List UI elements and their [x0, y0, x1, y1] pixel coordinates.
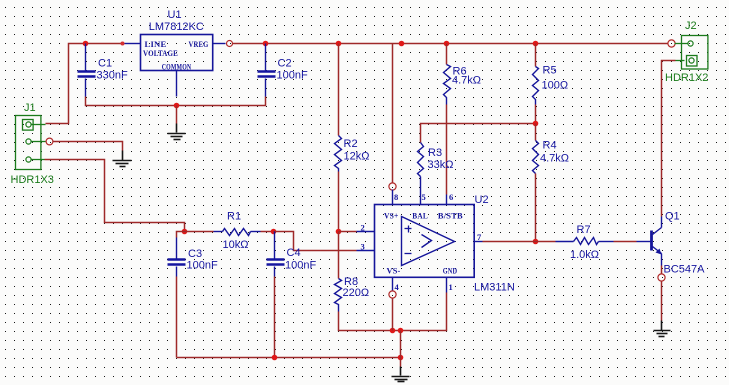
svg-text:4.7kΩ: 4.7kΩ	[452, 75, 481, 87]
svg-text:220Ω: 220Ω	[343, 287, 370, 299]
svg-text:J2: J2	[685, 20, 697, 32]
svg-text:1.0kΩ: 1.0kΩ	[570, 249, 599, 261]
svg-text:U1: U1	[168, 9, 182, 21]
svg-text:6: 6	[449, 192, 453, 202]
svg-text:100nF: 100nF	[285, 260, 316, 272]
wire Q1 emitter	[661, 266, 663, 275]
svg-text:10kΩ: 10kΩ	[223, 239, 249, 251]
svg-text:B/STB: B/STB	[438, 210, 463, 220]
svg-text:GND: GND	[443, 265, 458, 275]
node pin4 open circle	[389, 291, 396, 298]
svg-text:VREG: VREG	[189, 39, 209, 49]
wire R7 to Q1 base	[614, 241, 637, 243]
wire C1 bottom to mini rail	[86, 97, 266, 106]
wire ground drop	[400, 331, 402, 367]
node junction C2 top	[263, 41, 269, 47]
node junction output	[533, 239, 539, 245]
wire R4 top	[535, 124, 537, 141]
op-amp U2	[357, 192, 515, 294]
connector J1	[11, 102, 54, 186]
node junction C1 top	[83, 41, 89, 47]
wire pin2 node to U2	[339, 231, 357, 233]
node junction R5 top	[533, 41, 539, 47]
node J1 pin2 open circle	[46, 138, 53, 145]
node junction R2 top	[336, 41, 342, 47]
svg-text:C1: C1	[98, 58, 112, 70]
node junction C4 bottom	[272, 355, 278, 361]
svg-text:R1: R1	[227, 211, 241, 223]
resistor R1	[214, 211, 261, 252]
svg-text:8: 8	[394, 192, 398, 202]
node junction pin2	[336, 229, 342, 235]
connector J2	[665, 20, 708, 84]
wire J1 pin3 to R1 node	[45, 160, 185, 232]
svg-text:LM7812KC: LM7812KC	[149, 21, 204, 33]
capacitor C2	[258, 44, 308, 97]
wire C3 bottom to bottom rail	[176, 277, 178, 358]
svg-text:VS+: VS+	[384, 210, 399, 220]
wire R1 right to C4 node	[261, 231, 274, 233]
svg-text:HDR1X2: HDR1X2	[665, 72, 708, 84]
resistor R5	[533, 65, 569, 105]
svg-text:12kΩ: 12kΩ	[344, 151, 370, 163]
svg-text:R7: R7	[577, 224, 591, 236]
node junction R1 left	[182, 229, 188, 235]
node junction mid rail	[399, 41, 405, 47]
svg-text:330nF: 330nF	[97, 70, 128, 82]
wire bottom rail	[177, 357, 401, 359]
ground under U2	[392, 367, 410, 382]
wire pin8 stub	[392, 190, 394, 205]
wire pin6 stub	[446, 195, 448, 205]
ground at J1 pin2	[113, 151, 132, 167]
svg-text:100Ω: 100Ω	[542, 80, 569, 92]
node U1 output open circle	[227, 41, 233, 47]
svg-text:33kΩ: 33kΩ	[428, 159, 454, 171]
svg-text:COMMON: COMMON	[162, 62, 192, 72]
node junction pin4 bottom	[390, 328, 396, 334]
wire C4 node to pin3	[274, 232, 357, 251]
wire top rail main	[233, 43, 668, 45]
svg-text:4.7kΩ: 4.7kΩ	[540, 153, 569, 165]
wire R6 column	[446, 44, 448, 65]
wire R3 top	[421, 124, 536, 143]
ground under U1	[168, 124, 186, 140]
svg-text:BC547A: BC547A	[664, 264, 706, 276]
wire pin8 supply	[392, 44, 394, 183]
wire C3 tap	[177, 232, 185, 238]
capacitor C1	[78, 44, 128, 97]
svg-text:U2: U2	[475, 194, 489, 206]
svg-text:R4: R4	[543, 140, 557, 152]
node junction common ground	[174, 103, 180, 109]
wire C4 bottom to bottom rail	[274, 277, 276, 358]
resistor R7	[556, 224, 614, 261]
svg-text:VOLTAGE: VOLTAGE	[143, 48, 178, 58]
svg-text:R3: R3	[428, 147, 442, 159]
wire top rail left segment	[46, 44, 123, 124]
svg-text:5: 5	[422, 192, 426, 202]
svg-text:R5: R5	[543, 65, 557, 77]
node junction R6 top	[444, 41, 450, 47]
resistor R4	[533, 140, 570, 174]
resistor R3	[418, 143, 454, 177]
svg-text:100nF: 100nF	[277, 70, 308, 82]
wire J2 pin2 to Q1 collector	[662, 61, 676, 217]
svg-text:C2: C2	[278, 58, 292, 70]
svg-text:Q1: Q1	[665, 211, 680, 223]
svg-text:C3: C3	[188, 248, 202, 260]
wire R4 bottom to output row	[535, 174, 537, 242]
ground at Q1	[654, 321, 671, 337]
wire R6 bottom to pin6	[446, 105, 448, 195]
node Q1 emitter open circle	[658, 274, 665, 281]
wire R2 top	[338, 44, 340, 136]
wire R5 bottom	[535, 105, 537, 124]
wire pin2 node down to R8	[338, 232, 340, 279]
resistor R2	[335, 136, 370, 172]
wire Q1 emitter to ground	[661, 282, 663, 321]
capacitor C4	[267, 232, 317, 277]
node junction ground tee	[398, 328, 404, 334]
svg-text:VS-: VS-	[387, 265, 401, 275]
op-amp U1 regulator box	[125, 9, 226, 97]
wire R8 bottom rail to pin1	[339, 293, 447, 331]
node U1 input pin dot	[121, 42, 125, 46]
resistor R6	[444, 65, 482, 105]
resistor R8	[335, 276, 370, 312]
node pin8 open circle	[389, 183, 396, 190]
svg-text:100nF: 100nF	[187, 260, 218, 272]
svg-text:HDR1X3: HDR1X3	[11, 174, 54, 186]
wire R2 bottom to pin2 node	[338, 172, 340, 232]
svg-text:LM311N: LM311N	[474, 282, 515, 294]
wire R1 left	[185, 231, 214, 233]
node junction R4 top	[533, 121, 539, 127]
wire R5 column top	[535, 44, 537, 67]
node junction bottom rail ground	[398, 355, 404, 361]
capacitor C3	[168, 238, 218, 277]
svg-text:BAL: BAL	[412, 210, 428, 220]
transistor Q1	[637, 211, 706, 276]
wire J1 pin2 to ground	[53, 142, 123, 151]
node junction C4 top	[271, 229, 277, 235]
wire pin5 stub	[420, 177, 422, 205]
wire common to ground	[176, 106, 178, 124]
svg-text:J1: J1	[24, 102, 36, 114]
svg-text:1: 1	[449, 282, 453, 292]
wire pin4 to rail	[392, 299, 394, 331]
node J2 input open circle	[668, 40, 675, 47]
svg-text:R2: R2	[344, 138, 358, 150]
wire output to R7	[483, 241, 556, 243]
svg-text:C4: C4	[287, 247, 301, 259]
